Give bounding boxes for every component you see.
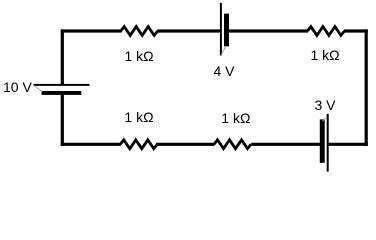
wire top-right corner segment [344, 29, 368, 32]
label "3 V" for battery V3 [315, 97, 337, 113]
label "1 kΩ" for R2 [311, 47, 340, 63]
label "10 V" for battery V1 [3, 79, 32, 95]
wire top-middle segment (R1 to battery V2) [157, 29, 220, 32]
svg-text:1 kΩ: 1 kΩ [125, 48, 154, 64]
wire left vertical upper segment [61, 29, 64, 84]
label "1 kΩ" for R1 [125, 48, 154, 64]
wire right vertical segment [365, 29, 368, 146]
svg-text:4 V: 4 V [214, 63, 236, 79]
wire left vertical lower segment [61, 95, 64, 147]
battery V3 thin long plate [327, 114, 329, 172]
wire bottom-right segment (corner to battery V3) [329, 143, 368, 146]
battery V1 thin long plate [33, 84, 89, 86]
battery V2 thick short plate [224, 14, 229, 47]
wire bottom segment (battery V3 to R4) [251, 143, 320, 146]
wire bottom-left segment (R3 to corner) [61, 143, 121, 146]
battery V2 thin long plate [220, 3, 222, 56]
wire bottom-middle segment (R3 to R4) [156, 143, 215, 146]
battery V2 leader artifact line [221, 47, 225, 55]
svg-text:1 kΩ: 1 kΩ [124, 109, 153, 125]
label "1 kΩ" for R4 [221, 110, 250, 126]
battery V1 leader artifact line [34, 85, 43, 91]
battery V1 thick short plate [42, 91, 82, 95]
wire top-left horizontal segment [61, 29, 122, 32]
resistor R2 (top right) [307, 27, 344, 36]
resistor R1 (top left) [121, 27, 158, 36]
wire top-right segment (battery V2 to R2) [229, 29, 308, 32]
label "4 V" for battery V2 [214, 63, 236, 79]
resistor R4 (bottom middle) [214, 140, 251, 149]
svg-text:1 kΩ: 1 kΩ [311, 47, 340, 63]
battery V3 leader artifact line [322, 117, 327, 121]
svg-text:10 V: 10 V [3, 79, 32, 95]
svg-text:1 kΩ: 1 kΩ [221, 110, 250, 126]
svg-text:3 V: 3 V [315, 97, 337, 113]
resistor R3 (bottom left) [120, 140, 157, 149]
battery V3 thick short plate [320, 119, 325, 162]
label "1 kΩ" for R3 [124, 109, 153, 125]
